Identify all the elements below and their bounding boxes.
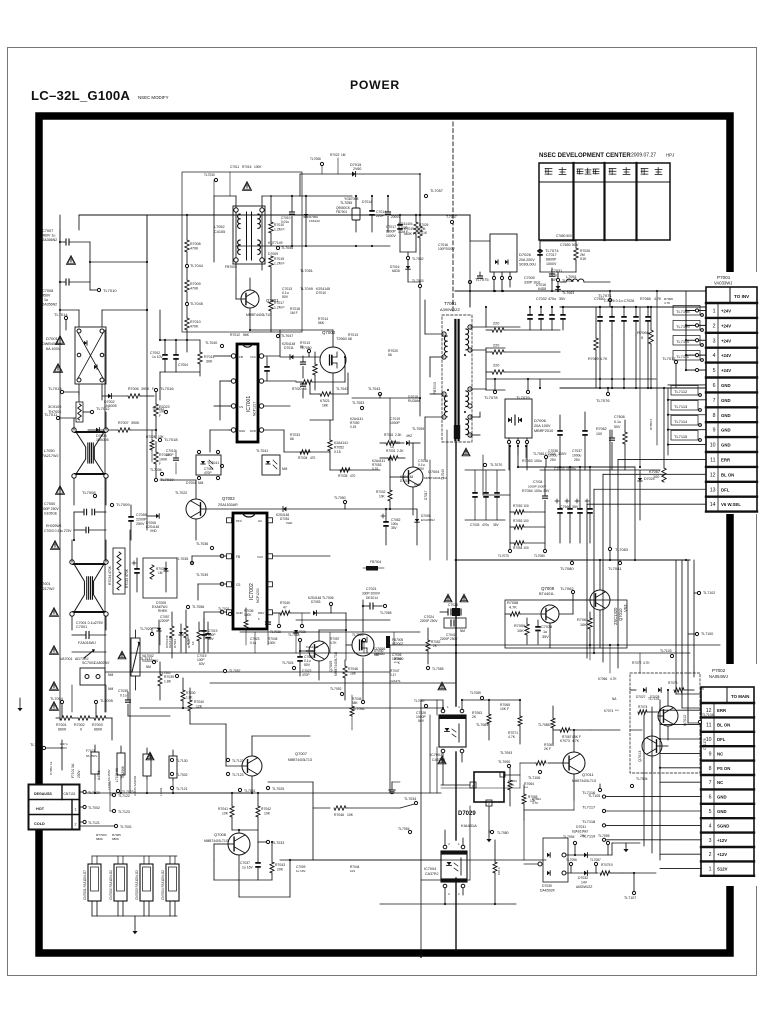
svg-text:D7030: D7030 xyxy=(542,884,552,888)
svg-text:TL7062: TL7062 xyxy=(412,257,424,261)
terminal TL7011 xyxy=(44,412,76,420)
terminal TL7081 xyxy=(608,560,622,571)
cap C7017 pair xyxy=(537,234,590,283)
svg-text:D7004: D7004 xyxy=(186,481,196,485)
svg-text:TL7093: TL7093 xyxy=(500,751,512,755)
capacitor C7051 xyxy=(44,524,106,533)
svg-text:18K: 18K xyxy=(350,672,357,676)
svg-text:F: F xyxy=(159,414,161,418)
svg-text:Q7008: Q7008 xyxy=(214,832,227,837)
left rail extension xyxy=(60,215,147,262)
R7036 chain xyxy=(157,610,218,658)
R7039 resistor xyxy=(140,657,174,700)
svg-text:TL7096: TL7096 xyxy=(566,858,577,862)
Q7011 collector wire xyxy=(524,800,574,820)
svg-text:5A 250V: 5A 250V xyxy=(86,754,97,758)
resistor R7010 xyxy=(185,318,201,352)
svg-text:7: 7 xyxy=(709,780,712,786)
svg-text:TL7050: TL7050 xyxy=(334,496,346,500)
approval table title NSEC DEVELOPMENT CENTER xyxy=(539,152,674,159)
svg-text:R7022: R7022 xyxy=(330,153,340,157)
svg-text:0.1u: 0.1u xyxy=(250,641,256,645)
capacitor C7008 xyxy=(40,279,90,307)
svg-text:390K: 390K xyxy=(141,387,150,391)
svg-text:R7068: R7068 xyxy=(640,297,651,301)
svg-text:50V: 50V xyxy=(572,243,579,247)
svg-text:56K: 56K xyxy=(318,321,325,325)
svg-text:R7052: R7052 xyxy=(334,446,344,450)
svg-text:TL7043: TL7043 xyxy=(336,387,348,391)
svg-text:470K: 470K xyxy=(190,287,199,291)
connector CN7002 xyxy=(109,864,127,916)
center bottom wires xyxy=(240,632,420,653)
svg-text:F: F xyxy=(152,387,154,391)
resistor R7023 xyxy=(154,396,170,430)
svg-text:C7650: C7650 xyxy=(594,297,605,301)
svg-text:R7058: R7058 xyxy=(507,601,518,605)
svg-text:220: 220 xyxy=(493,344,499,348)
svg-text:TL7069: TL7069 xyxy=(352,633,364,637)
svg-text:8: 8 xyxy=(713,413,716,419)
svg-text:100P2000V: 100P2000V xyxy=(438,247,456,251)
warning triangle A xyxy=(67,256,76,265)
svg-text:0.1u: 0.1u xyxy=(614,420,621,424)
warning triangle C xyxy=(54,364,63,373)
transistor Q7004 xyxy=(403,467,447,487)
svg-text:470P: 470P xyxy=(166,453,173,457)
svg-text:Q7011: Q7011 xyxy=(582,772,594,777)
svg-text:100u 35V: 100u 35V xyxy=(534,489,550,493)
svg-text:4.7K: 4.7K xyxy=(509,606,517,610)
svg-text:TL7041: TL7041 xyxy=(207,461,219,465)
svg-text:56K: 56K xyxy=(243,333,250,337)
terminal TL7083 xyxy=(608,430,627,561)
capacitor bank C7026-C7028 xyxy=(597,299,651,389)
terminal TL7105 xyxy=(588,784,602,798)
svg-text:TL7036: TL7036 xyxy=(150,468,162,472)
svg-text:1: 1 xyxy=(75,808,77,812)
svg-text:TL7085?: TL7085? xyxy=(538,723,551,727)
terminal TL7076 xyxy=(596,387,610,403)
terminal TL7035b xyxy=(266,786,284,791)
svg-text:1K: 1K xyxy=(191,641,195,645)
svg-text:1.2M F: 1.2M F xyxy=(274,262,285,266)
svg-text:Q7002: Q7002 xyxy=(322,330,336,335)
terminal TL7074 xyxy=(538,248,559,262)
svg-text:TL7040: TL7040 xyxy=(205,341,217,345)
svg-text:0.15: 0.15 xyxy=(334,450,341,454)
svg-text:1000V: 1000V xyxy=(546,262,557,266)
svg-text:66: 66 xyxy=(290,437,294,441)
coil L7103 box xyxy=(169,750,177,780)
mid band bus y620 xyxy=(296,620,390,628)
resistor R7040b xyxy=(270,601,310,634)
capacitor bank C7033 xyxy=(465,470,505,527)
svg-text:GND: GND xyxy=(239,429,245,433)
wire net QA xyxy=(130,620,160,645)
capacitor C7034b xyxy=(528,480,548,512)
svg-text:5: 5 xyxy=(709,809,712,815)
bus y904 xyxy=(380,903,516,905)
svg-text:C7055: C7055 xyxy=(136,513,147,517)
svg-text:C7001: C7001 xyxy=(76,625,87,629)
terminal TL7123b xyxy=(116,789,133,794)
svg-text:8: 8 xyxy=(709,766,712,772)
svg-text:CS: CS xyxy=(239,405,243,409)
svg-text:1000V: 1000V xyxy=(386,234,397,238)
warning triangle I xyxy=(146,752,154,760)
center bottom labels xyxy=(250,633,404,665)
svg-text:1SS133: 1SS133 xyxy=(309,219,320,223)
svg-text:D7011: D7011 xyxy=(284,346,294,350)
terminals TL7122 col xyxy=(226,758,255,793)
svg-text:R7046: R7046 xyxy=(348,667,358,671)
svg-text:1000P 250V: 1000P 250V xyxy=(40,507,59,511)
svg-text:TL7123: TL7123 xyxy=(122,790,134,794)
IC7001 left wires xyxy=(210,356,229,452)
svg-text:4.7K: 4.7K xyxy=(532,801,538,805)
svg-text:4.7K: 4.7K xyxy=(572,739,580,743)
svg-text:10K: 10K xyxy=(580,623,587,627)
svg-text:TL7049: TL7049 xyxy=(300,287,313,291)
svg-text:GND: GND xyxy=(721,398,731,403)
P7001 stub connections xyxy=(685,291,706,372)
varistor VA7002 xyxy=(131,630,159,690)
svg-text:VA033WJ: VA033WJ xyxy=(714,281,732,286)
svg-text:TL7055: TL7055 xyxy=(340,201,352,205)
svg-text:4.7K: 4.7K xyxy=(654,297,662,301)
svg-text:TL7094: TL7094 xyxy=(563,835,575,839)
top center extra labels xyxy=(204,153,346,182)
terminal TL7016 xyxy=(154,386,174,396)
svg-text:Q7005: Q7005 xyxy=(329,661,333,672)
resistor R7065b xyxy=(493,840,501,904)
transistor Q7005 xyxy=(309,641,338,676)
svg-text:+24V: +24V xyxy=(721,308,731,313)
svg-text:TL7016: TL7016 xyxy=(160,386,174,391)
svg-text:100K: 100K xyxy=(254,165,262,169)
ground G3 xyxy=(486,830,491,842)
svg-text:R7006: R7006 xyxy=(128,387,139,391)
svg-text:TL7043: TL7043 xyxy=(368,387,380,391)
svg-text:TL7102: TL7102 xyxy=(703,591,715,595)
svg-text:R7019: R7019 xyxy=(404,227,414,231)
svg-text:BL ON: BL ON xyxy=(717,723,730,728)
svg-text:TO MAIN: TO MAIN xyxy=(731,694,749,699)
Q7005 wires xyxy=(299,629,347,680)
svg-text:100u: 100u xyxy=(534,459,542,463)
svg-text:NSEC DEVELOPMENT CENTER: NSEC DEVELOPMENT CENTER xyxy=(539,152,631,159)
labels around IC7001 xyxy=(256,341,364,453)
svg-text:R7033 470K: R7033 470K xyxy=(125,568,129,588)
IC IC7001 xyxy=(229,344,264,442)
transistor Q7001 xyxy=(241,290,279,317)
mid right components xyxy=(540,307,660,470)
svg-text:14V: 14V xyxy=(581,881,588,885)
svg-text:C7650 50V: C7650 50V xyxy=(556,234,573,238)
terminals TL7112-TL7115 xyxy=(671,386,701,442)
svg-text:TL7070: TL7070 xyxy=(490,463,502,467)
svg-text:T7001: T7001 xyxy=(444,301,457,306)
svg-text:T.7067: T.7067 xyxy=(446,215,457,219)
resistor R7042 xyxy=(256,792,271,838)
bottom mid horizontal xyxy=(130,793,470,880)
svg-text:50V: 50V xyxy=(282,295,289,299)
terminal TL7013 xyxy=(48,386,79,402)
svg-text:D7006: D7006 xyxy=(534,418,547,423)
coil L7102 box xyxy=(143,748,151,779)
svg-text:6800P: 6800P xyxy=(546,258,557,262)
svg-text:NSEC MODIFY: NSEC MODIFY xyxy=(138,95,169,100)
svg-text:BL ON: BL ON xyxy=(721,472,734,477)
svg-text:0: 0 xyxy=(611,863,613,867)
svg-text:470: 470 xyxy=(350,474,356,478)
svg-text:RU3AM: RU3AM xyxy=(408,399,420,403)
svg-text:100K: 100K xyxy=(268,641,276,645)
capacitor C7650b xyxy=(297,640,314,676)
svg-text:K7021: K7021 xyxy=(320,399,330,403)
svg-text:20A 100V: 20A 100V xyxy=(534,424,551,428)
svg-text:R7032: R7032 xyxy=(376,490,386,494)
svg-text:TL7080: TL7080 xyxy=(560,566,574,571)
svg-text:R7034: R7034 xyxy=(298,456,308,460)
startup box xyxy=(132,558,177,598)
svg-text:680K: 680K xyxy=(96,837,103,841)
svg-text:C7008: C7008 xyxy=(42,289,53,293)
zener D7009b xyxy=(415,509,435,545)
wires above optos xyxy=(421,699,521,701)
svg-text:470K: 470K xyxy=(190,247,199,251)
svg-text:4.7K: 4.7K xyxy=(664,301,670,305)
black junction xyxy=(452,608,460,616)
svg-text:14: 14 xyxy=(710,502,716,508)
svg-text:6A 400V: 6A 400V xyxy=(46,347,61,351)
svg-text:GND: GND xyxy=(717,809,727,814)
ground G2 xyxy=(17,698,22,711)
left lower labels xyxy=(49,742,121,841)
P7002 left feed verticals xyxy=(644,700,661,860)
svg-text:TL7002: TL7002 xyxy=(88,806,100,810)
svg-text:TL7084: TL7084 xyxy=(476,723,488,727)
svg-text:C7021: C7021 xyxy=(366,587,377,591)
terminal TL7004 xyxy=(50,697,64,712)
svg-text:TL7080: TL7080 xyxy=(497,831,509,835)
resistor R7046b xyxy=(268,782,400,860)
secondary lower bus A xyxy=(455,559,690,561)
svg-text:50V: 50V xyxy=(418,719,425,723)
svg-text:TL7009: TL7009 xyxy=(116,502,130,507)
capacitor bank C7036 C7037 xyxy=(548,449,593,543)
svg-text:13: 13 xyxy=(710,487,716,493)
resistor R7038v xyxy=(186,622,201,652)
svg-text:C7608: C7608 xyxy=(614,415,625,419)
svg-text:MMBT4401LT1G: MMBT4401LT1G xyxy=(204,839,229,843)
svg-text:R7046: R7046 xyxy=(334,813,344,817)
svg-text:EXA09WJ: EXA09WJ xyxy=(421,518,435,522)
connector P7001 xyxy=(703,272,760,514)
svg-text:TL7070: TL7070 xyxy=(498,554,509,558)
svg-text:TL7033: TL7033 xyxy=(272,841,284,845)
resistor R7006 xyxy=(128,387,154,398)
secondary top bus xyxy=(79,195,470,230)
svg-text:TL7078: TL7078 xyxy=(484,395,498,400)
svg-text:TL7055: TL7055 xyxy=(432,667,444,671)
svg-text:1u: 1u xyxy=(543,630,547,634)
svg-text:Q7007: Q7007 xyxy=(295,751,308,756)
svg-text:18K: 18K xyxy=(322,404,329,408)
secondary lower bus B xyxy=(390,644,720,646)
capacitor C7021 xyxy=(362,587,392,615)
svg-text:COLD: COLD xyxy=(34,822,45,826)
resistor R7066 xyxy=(637,306,653,389)
AC table stubs xyxy=(80,781,132,829)
svg-text:2200P 250V: 2200P 250V xyxy=(440,637,458,641)
long wire TL7034 xyxy=(400,797,418,808)
svg-text:C7A176: C7A176 xyxy=(703,738,707,750)
svg-text:CS: CS xyxy=(236,583,240,587)
svg-text:TL7110: TL7110 xyxy=(676,339,690,344)
svg-text:4HZ: 4HZ xyxy=(406,434,412,438)
svg-text:TL7118: TL7118 xyxy=(582,819,596,824)
capacitor C7002 xyxy=(150,340,168,372)
resistor R7030 xyxy=(160,671,196,709)
svg-text:TL7021: TL7021 xyxy=(218,607,230,611)
svg-text:TL7047: TL7047 xyxy=(281,334,293,338)
svg-text:1M: 1M xyxy=(341,153,346,157)
bottom right wires xyxy=(524,843,656,873)
svg-text:+12V: +12V xyxy=(717,838,727,843)
P7002 pin stub wires xyxy=(660,710,701,868)
secondary lower bus C xyxy=(130,652,690,654)
svg-text:10K: 10K xyxy=(517,629,524,633)
svg-text:D7009: D7009 xyxy=(268,252,278,256)
bus y245 xyxy=(470,245,490,247)
svg-text:2: 2 xyxy=(709,852,712,858)
svg-text:1u 16V: 1u 16V xyxy=(242,866,253,870)
svg-text:MMBT4403LT1G: MMBT4403LT1G xyxy=(334,651,338,676)
top right wires xyxy=(455,215,706,307)
svg-text:9: 9 xyxy=(713,428,716,434)
svg-text:CN7101: CN7101 xyxy=(64,792,76,796)
svg-text:1u: 1u xyxy=(44,298,48,302)
svg-text:R7061: R7061 xyxy=(577,618,588,622)
svg-text:GND: GND xyxy=(721,443,731,448)
svg-text:MMBT4403LT1G: MMBT4403LT1G xyxy=(288,758,313,762)
svg-text:11: 11 xyxy=(706,723,711,729)
svg-text:VCC: VCC xyxy=(257,555,264,559)
connector P7002 xyxy=(698,664,758,886)
svg-text:DCD: DCD xyxy=(250,429,256,433)
svg-text:TL7094: TL7094 xyxy=(398,827,410,831)
svg-text:TL7114: TL7114 xyxy=(674,419,688,424)
terminal TL7014 xyxy=(54,312,68,330)
diode D7011 xyxy=(282,342,312,359)
terminal TL7061 xyxy=(352,690,365,711)
svg-text:6: 6 xyxy=(709,795,712,801)
svg-text:390K: 390K xyxy=(131,421,140,425)
svg-text:R7035: R7035 xyxy=(338,474,348,478)
svg-text:TL7066: TL7066 xyxy=(310,157,321,161)
svg-text:10K F: 10K F xyxy=(497,867,501,875)
svg-text:20A 200V: 20A 200V xyxy=(519,258,535,262)
capacitor C7007 xyxy=(40,229,90,245)
svg-text:C7017: C7017 xyxy=(386,225,396,229)
svg-text:TL7057: TL7057 xyxy=(430,189,443,193)
svg-text:R7069: R7069 xyxy=(588,357,599,361)
diode D7016b xyxy=(390,260,424,288)
svg-text:GND: GND xyxy=(721,413,731,418)
svg-text:12: 12 xyxy=(710,472,716,478)
diode D7024v xyxy=(168,624,183,652)
diode D7003 xyxy=(88,428,118,442)
svg-text:TL7056: TL7056 xyxy=(192,605,204,609)
wires C700x xyxy=(59,215,147,283)
svg-text:1.2M F: 1.2M F xyxy=(274,306,285,310)
svg-text:TL7034: TL7034 xyxy=(404,797,416,801)
svg-text:+24V: +24V xyxy=(721,368,731,373)
svg-text:100V: 100V xyxy=(558,452,567,456)
svg-text:MBRF2010: MBRF2010 xyxy=(534,429,553,433)
labels right-mid2 xyxy=(598,649,674,713)
choke wires xyxy=(214,196,300,278)
svg-text:6: 6 xyxy=(713,383,716,389)
svg-text:R7062: R7062 xyxy=(596,427,607,431)
svg-text:R7010: R7010 xyxy=(190,320,201,324)
svg-text:220: 220 xyxy=(493,364,499,368)
resistor R7003 xyxy=(90,716,112,732)
photocoupler IC7004 xyxy=(424,842,467,896)
warning triangle K xyxy=(118,651,126,659)
chassis line below transformer xyxy=(455,442,457,950)
warning triangles mid xyxy=(438,594,468,690)
svg-text:TL7035: TL7035 xyxy=(176,557,188,561)
svg-text:2.3K: 2.3K xyxy=(395,433,402,437)
svg-text:0.1u: 0.1u xyxy=(120,694,127,698)
svg-text:C7025: C7025 xyxy=(448,603,458,607)
svg-text:SGND: SGND xyxy=(717,823,729,828)
svg-text:K7073: K7073 xyxy=(560,739,570,743)
svg-text:C7032: C7032 xyxy=(536,297,547,301)
svg-text:TL7101: TL7101 xyxy=(648,697,660,701)
svg-text:K2S4148: K2S4148 xyxy=(282,342,295,346)
thermistor TH7001 xyxy=(48,402,83,422)
svg-text:S1K: S1K xyxy=(421,231,428,235)
svg-text:C7004: C7004 xyxy=(178,363,188,367)
diode D7052 xyxy=(308,596,346,630)
svg-text:1.8K: 1.8K xyxy=(164,680,172,684)
fuse F7101 box xyxy=(91,745,99,779)
svg-text:F2A356N2: F2A356N2 xyxy=(40,303,57,307)
resistor R7048b xyxy=(343,660,358,700)
svg-text:FA217WJ: FA217WJ xyxy=(38,587,55,591)
svg-text:C7037: C7037 xyxy=(240,861,250,865)
svg-text:6800P: 6800P xyxy=(386,230,397,234)
capacitor C7004 xyxy=(173,340,188,372)
svg-text:KQT7149: KQT7149 xyxy=(268,241,283,245)
svg-text:VSA002WJ: VSA002WJ xyxy=(142,659,159,663)
svg-text:TL7076: TL7076 xyxy=(596,398,610,403)
svg-text:CA37RJ: CA37RJ xyxy=(425,872,439,876)
terminal TL7005 xyxy=(94,699,112,712)
svg-text:7: 7 xyxy=(713,398,716,404)
svg-text:HV: HV xyxy=(258,519,262,523)
svg-text:50V: 50V xyxy=(614,425,621,429)
svg-text:TL7106: TL7106 xyxy=(528,776,540,780)
svg-text:4.7K: 4.7K xyxy=(508,735,516,739)
labels KIA xyxy=(508,779,541,805)
svg-text:K7066: K7066 xyxy=(598,677,607,681)
svg-text:POWER: POWER xyxy=(350,78,400,92)
